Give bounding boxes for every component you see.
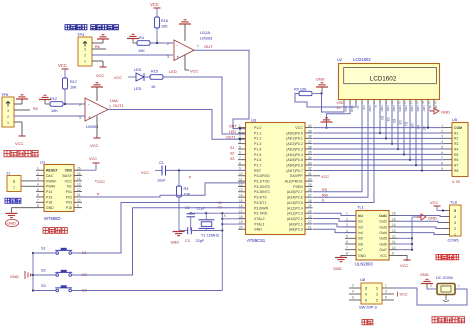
svg-text:3: 3 <box>385 290 387 294</box>
svg-text:VL: VL <box>337 106 341 110</box>
svg-text:14: 14 <box>77 177 81 181</box>
svg-text:D2: D2 <box>392 119 396 123</box>
svg-text:Out5: Out5 <box>379 237 387 241</box>
svg-text:P3.6/WR: P3.6/WR <box>254 206 269 210</box>
svg-text:3: 3 <box>441 135 443 139</box>
svg-text:NC: NC <box>67 185 73 189</box>
svg-text:2: 2 <box>454 227 456 231</box>
svg-text:22pF: 22pF <box>196 239 205 243</box>
svg-text:Y1 12MHZ: Y1 12MHZ <box>201 234 220 238</box>
wire TP6 pin4 to ground <box>14 99 22 104</box>
svg-text:38: 38 <box>308 135 312 139</box>
net label S1 at P1.4 <box>230 146 234 150</box>
connector TL8 label <box>450 200 458 205</box>
ground above power jack <box>420 272 433 289</box>
svg-text:C1: C1 <box>159 161 164 165</box>
svg-text:33: 33 <box>308 161 312 165</box>
svg-text:D5: D5 <box>410 124 414 128</box>
svg-text:R4: R4 <box>139 36 144 40</box>
svg-text:LED: LED <box>169 69 177 74</box>
net VCC at U8 pin3 <box>398 292 408 297</box>
wire TP4 pin1 to VCC <box>92 61 103 67</box>
svg-text:(AD7)P0.7: (AD7)P0.7 <box>286 169 303 173</box>
wire MCU P2.2 to TL1 In3 <box>313 224 356 227</box>
wire P0.5 row <box>313 159 444 161</box>
svg-text:GND: GND <box>7 221 16 226</box>
power symbol on LCD VDD drop <box>321 118 333 122</box>
svg-text:VCC: VCC <box>90 143 99 148</box>
net label LED at P1.1 <box>229 130 236 134</box>
wire S3 to ground bus <box>72 290 223 292</box>
svg-text:VCC: VCC <box>65 179 73 183</box>
svg-text:COM: COM <box>454 126 462 130</box>
LCD1602 module <box>339 64 440 100</box>
svg-text:R7: R7 <box>454 163 458 167</box>
ground rail for buttons <box>10 252 34 292</box>
speaker connector J1 label <box>6 171 11 176</box>
svg-text:10K: 10K <box>184 193 191 197</box>
net label OUT1 at P1.2 <box>226 135 241 140</box>
svg-text:GND: GND <box>46 206 54 210</box>
svg-text:D7: D7 <box>422 127 426 131</box>
svg-text:In4: In4 <box>358 231 363 235</box>
capacitor C2 22pF <box>185 206 206 231</box>
svg-text:2: 2 <box>441 129 443 133</box>
wire TP6 pin1 to VCC <box>14 122 22 136</box>
svg-text:2: 2 <box>365 287 367 291</box>
svg-text:VCC: VCC <box>58 63 67 68</box>
svg-text:Out7: Out7 <box>379 248 387 252</box>
svg-text:VCC: VCC <box>114 76 122 80</box>
wire Out2 to TL8 pin3 <box>397 221 443 222</box>
svg-text:5: 5 <box>376 299 378 303</box>
svg-text:Out6: Out6 <box>379 242 387 246</box>
svg-text:R6: R6 <box>33 107 38 111</box>
resistor network U5 4.7K <box>441 123 468 177</box>
wire TP4 pin2 to op-amp U12A pin3 <box>92 54 173 56</box>
svg-text:9: 9 <box>392 252 394 256</box>
svg-text:2: 2 <box>430 284 432 288</box>
svg-text:WT588D: WT588D <box>44 216 61 221</box>
power GND arrow right of TL1 <box>417 214 437 221</box>
net labels near LCD bundle <box>337 101 343 110</box>
VCC below U4A <box>90 116 101 148</box>
svg-text:P3.1/TXD: P3.1/TXD <box>254 180 270 184</box>
svg-text:P3.7/RD: P3.7/RD <box>254 212 268 216</box>
svg-text:U1: U1 <box>40 160 46 165</box>
net label LED <box>169 69 177 74</box>
svg-text:GND: GND <box>420 272 429 277</box>
LCD pin stubs and names <box>343 100 438 113</box>
svg-text:1: 1 <box>84 60 86 64</box>
svg-text:U12A: U12A <box>200 30 210 35</box>
svg-text:(A15)P2.7: (A15)P2.7 <box>287 190 303 194</box>
svg-text:GND: GND <box>171 240 180 245</box>
svg-text:4.7K: 4.7K <box>452 179 461 184</box>
DIP switch name <box>359 305 378 310</box>
svg-text:S3: S3 <box>41 284 46 288</box>
svg-text:8: 8 <box>239 161 241 165</box>
svg-text:5: 5 <box>385 296 387 300</box>
wire LCD BLA to VCC row <box>427 104 429 129</box>
svg-text:4: 4 <box>454 215 456 219</box>
svg-text:Out1: Out1 <box>379 214 387 218</box>
svg-text:E: E <box>374 106 378 108</box>
svg-text:15: 15 <box>392 217 396 221</box>
svg-text:DB0: DB0 <box>380 106 384 112</box>
svg-text:U3: U3 <box>251 118 257 123</box>
svg-text:15: 15 <box>77 172 81 176</box>
wire LCD VDD pin2 <box>325 104 350 129</box>
svg-text:RW: RW <box>322 193 329 197</box>
svg-text:1: 1 <box>37 166 39 170</box>
power VCC under TP6 <box>15 136 26 146</box>
svg-text:DB2: DB2 <box>392 106 396 112</box>
wire LCD RW to MCU P2.6 <box>313 104 368 197</box>
svg-text:12: 12 <box>409 100 412 104</box>
wire TP6 pin2 to op-amp U4A pin3 <box>14 115 85 117</box>
svg-text:25: 25 <box>308 204 312 208</box>
svg-text:DB4: DB4 <box>404 106 408 112</box>
wire LCD DB4 vertical <box>403 104 405 154</box>
wire LCD DB6 vertical <box>415 104 417 165</box>
wire P3.6 row to crystal rail <box>190 212 246 214</box>
svg-text:(A14)P2.6: (A14)P2.6 <box>287 196 303 200</box>
svg-text:1: 1 <box>197 44 199 48</box>
svg-text:11: 11 <box>77 193 81 197</box>
svg-text:35: 35 <box>308 151 312 155</box>
svg-text:3: 3 <box>167 55 169 59</box>
svg-text:(A12)P2.4: (A12)P2.4 <box>287 206 303 210</box>
svg-text:7: 7 <box>239 156 241 160</box>
svg-text:P1.4: P1.4 <box>254 147 261 151</box>
wire U8 pin1 to power jack <box>394 288 467 305</box>
svg-text:LM393: LM393 <box>200 36 213 41</box>
wire LCD VL pin3 <box>295 94 356 108</box>
op-amp U4A <box>79 98 118 129</box>
svg-text:10: 10 <box>239 172 243 176</box>
svg-text:OUT: OUT <box>229 125 237 129</box>
connector TP6 label <box>1 92 9 97</box>
svg-text:14: 14 <box>392 223 396 227</box>
svg-text:20: 20 <box>239 226 243 230</box>
svg-text:R12: R12 <box>50 97 57 101</box>
svg-text:8: 8 <box>441 161 443 165</box>
net label D3 <box>398 121 402 125</box>
svg-text:3: 3 <box>239 135 241 139</box>
net label RW <box>322 193 329 197</box>
wire LCD BLK to GND <box>430 104 434 111</box>
net label P01 <box>97 176 192 197</box>
svg-text:32: 32 <box>308 167 312 171</box>
speaker connector J1 <box>7 176 21 192</box>
svg-text:P15: P15 <box>66 206 72 210</box>
svg-text:AT89C51: AT89C51 <box>247 238 266 243</box>
wire TP6 pin3 stub <box>14 109 30 111</box>
svg-text:(AD4)P0.4: (AD4)P0.4 <box>286 153 303 157</box>
wire TP4 pin4 to ground <box>92 39 103 43</box>
wire WT588D GND pin to ground <box>11 208 36 213</box>
svg-text:GND: GND <box>333 266 342 271</box>
svg-text:VCC: VCC <box>141 170 149 175</box>
svg-text:15: 15 <box>427 100 430 104</box>
svg-text:S1: S1 <box>41 247 46 251</box>
ground rail under R3 <box>178 197 180 231</box>
U5 value label <box>452 179 461 184</box>
svg-text:P03: P03 <box>66 201 72 205</box>
ground left of R12 <box>39 95 51 104</box>
svg-text:4: 4 <box>365 293 367 297</box>
svg-text:D6: D6 <box>416 125 420 129</box>
VCC below U12A <box>185 55 199 74</box>
svg-text:PWM-: PWM- <box>46 185 57 189</box>
wire XTAL2 pin18 <box>221 218 245 220</box>
svg-text:2: 2 <box>239 129 241 133</box>
svg-text:OUT: OUT <box>204 44 213 49</box>
svg-text:P3.3/INT1: P3.3/INT1 <box>254 190 270 194</box>
ground above LCD bundle <box>313 78 328 95</box>
svg-text:D4: D4 <box>404 122 408 126</box>
power VCC under TP4 <box>96 67 107 78</box>
wire P0.6 row <box>313 164 444 166</box>
svg-text:6: 6 <box>239 151 241 155</box>
svg-text:5: 5 <box>37 188 39 192</box>
net label D0 <box>380 116 384 120</box>
svg-text:VCC: VCC <box>295 126 303 130</box>
svg-text:R1: R1 <box>454 131 458 135</box>
svg-text:12: 12 <box>392 235 396 239</box>
svg-text:U2: U2 <box>337 57 343 62</box>
svg-text:6: 6 <box>37 193 39 197</box>
wire MCU P2.4 to TL1 In1 <box>313 213 356 215</box>
svg-text:Out2: Out2 <box>379 220 387 224</box>
wire LCD DB0 vertical <box>379 104 381 133</box>
wire LCD E to MCU P2.5 <box>313 104 374 203</box>
svg-text:2: 2 <box>13 179 15 183</box>
svg-text:In1: In1 <box>358 214 363 218</box>
svg-text:2: 2 <box>167 42 169 46</box>
svg-text:TP6: TP6 <box>1 92 9 97</box>
power VCC above R17 <box>58 63 69 78</box>
wire TP4 pin3 stub <box>92 48 106 50</box>
wire LCD DB1 vertical <box>385 104 387 138</box>
svg-text:DAC: DAC <box>46 174 54 178</box>
svg-text:28: 28 <box>308 188 312 192</box>
svg-text:11: 11 <box>239 177 243 181</box>
svg-text:LED: LED <box>134 68 142 72</box>
driver TL1 ULN2003 <box>345 211 397 261</box>
LED D1 <box>134 68 150 91</box>
wire U4A output to MCU P1.2 <box>108 110 245 140</box>
svg-text:RESET: RESET <box>46 169 59 173</box>
net label OUT1 <box>113 103 124 108</box>
svg-text:TL1: TL1 <box>357 205 365 210</box>
svg-text:P13: P13 <box>46 195 52 199</box>
svg-text:DB6: DB6 <box>416 106 420 112</box>
resistor R12 10K <box>50 97 63 113</box>
wire WT588D VDD to VCC <box>82 163 96 170</box>
svg-text:3: 3 <box>84 48 86 52</box>
svg-text:13: 13 <box>415 100 418 104</box>
svg-text:(AD5)P0.5: (AD5)P0.5 <box>286 158 303 162</box>
svg-text:P14: P14 <box>46 190 52 194</box>
svg-text:ULN2003: ULN2003 <box>355 262 373 267</box>
svg-text:PWM+: PWM+ <box>46 179 57 183</box>
svg-text:1K: 1K <box>151 85 156 89</box>
svg-text:Out3: Out3 <box>379 225 387 229</box>
net label OUT at P1.0 <box>229 125 241 130</box>
svg-text:ALE/PROG: ALE/PROG <box>285 180 303 184</box>
label power input <box>432 317 465 323</box>
svg-text:7: 7 <box>346 246 348 250</box>
svg-text:1: 1 <box>239 124 241 128</box>
power bar above U12A <box>179 20 191 41</box>
svg-text:4: 4 <box>352 290 354 294</box>
svg-text:GND: GND <box>441 110 450 115</box>
power jack label <box>436 276 453 280</box>
svg-text:In3: In3 <box>358 225 363 229</box>
svg-text:DB3: DB3 <box>398 106 402 112</box>
wire MCU P2.3 to TL1 In2 <box>313 219 356 222</box>
wire C1 to RST pin9 <box>166 169 246 171</box>
svg-text:U5: U5 <box>452 117 458 122</box>
svg-text:P1.2: P1.2 <box>254 137 261 141</box>
resistor R15 1K <box>150 70 163 90</box>
svg-text:2: 2 <box>7 115 9 119</box>
label speaker <box>5 198 21 203</box>
power GND arrow right of LCD <box>430 108 450 115</box>
svg-text:P1.1: P1.1 <box>254 131 261 135</box>
svg-text:1: 1 <box>385 284 387 288</box>
svg-text:Out4: Out4 <box>379 231 387 235</box>
MCU U3 label <box>251 118 257 123</box>
svg-text:9: 9 <box>441 167 443 171</box>
svg-text:3: 3 <box>454 221 456 225</box>
net label D4 <box>404 122 408 126</box>
net label E <box>322 199 325 203</box>
wire S1 to MCU P3.4 <box>72 203 246 254</box>
svg-text:10: 10 <box>392 246 396 250</box>
voice chip U1 label <box>40 160 46 165</box>
net VCC at MCU EA pin <box>313 174 329 179</box>
svg-text:P01: P01 <box>66 190 72 194</box>
svg-text:10uF: 10uF <box>157 179 166 183</box>
svg-text:D1: D1 <box>386 118 390 122</box>
svg-text:3: 3 <box>79 116 81 120</box>
svg-text:GND: GND <box>358 254 366 258</box>
wire crystal vertical rail to S3 bus <box>221 213 223 290</box>
svg-text:1: 1 <box>458 284 460 288</box>
wire P0.2 row <box>313 143 444 145</box>
svg-text:TP4: TP4 <box>77 32 85 37</box>
svg-text:(AD2)P0.2: (AD2)P0.2 <box>286 142 303 146</box>
svg-text:(AD0)P0.0: (AD0)P0.0 <box>286 131 303 135</box>
svg-text:+: + <box>88 115 91 120</box>
svg-text:14: 14 <box>239 193 243 197</box>
svg-text:29: 29 <box>308 183 312 187</box>
net VCC arrow for LED <box>114 76 136 80</box>
svg-text:D0: D0 <box>380 116 384 120</box>
svg-text:XTAL2: XTAL2 <box>254 217 265 221</box>
svg-text:LCD1602: LCD1602 <box>370 76 397 83</box>
net label D2 <box>392 119 396 123</box>
wire J1 pin2 to PWM+ <box>21 180 36 182</box>
svg-text:16: 16 <box>77 166 81 170</box>
wire LCD DB7 vertical <box>421 104 423 170</box>
connector TL8 name <box>448 238 460 243</box>
wire R15 to MCU P1.1 <box>163 77 245 134</box>
wire LCD DB3 vertical <box>397 104 399 149</box>
svg-text:6: 6 <box>441 151 443 155</box>
wire Out3 to TL8 pin2 <box>397 227 443 229</box>
wire S2 to MCU P3.5 <box>72 208 246 275</box>
wire Out4 to TL8 pin1 <box>397 233 443 235</box>
svg-text:5: 5 <box>441 145 443 149</box>
net label D6 <box>416 125 420 129</box>
svg-text:R8: R8 <box>454 169 458 173</box>
svg-text:BUSY: BUSY <box>62 174 72 178</box>
svg-text:VCC: VCC <box>321 174 329 179</box>
power VCC above WT588D <box>89 156 100 163</box>
wire LCD DB5 vertical <box>409 104 411 160</box>
svg-text:P3.0/RXD: P3.0/RXD <box>254 174 270 178</box>
svg-text:LCD1602: LCD1602 <box>353 57 371 62</box>
svg-text:S3: S3 <box>230 157 234 161</box>
op-amp U12A <box>167 30 213 61</box>
svg-text:(A11)P2.3: (A11)P2.3 <box>287 212 303 216</box>
ground for TP4 pin4 <box>97 35 109 39</box>
connector TL8 CON5 <box>443 205 461 237</box>
svg-text:4: 4 <box>441 140 443 144</box>
connector TP4 <box>78 37 92 66</box>
svg-text:(AD3)P0.3: (AD3)P0.3 <box>286 147 303 151</box>
svg-text:R17: R17 <box>70 80 77 84</box>
svg-text:22pF: 22pF <box>197 207 206 211</box>
svg-text:VCC: VCC <box>430 200 438 205</box>
svg-text:R16: R16 <box>161 19 168 23</box>
svg-text:In7: In7 <box>358 248 363 252</box>
label switch <box>362 319 373 324</box>
VCC under TL1 right <box>397 255 411 268</box>
svg-text:26: 26 <box>308 199 312 203</box>
LCD U2 label <box>337 57 371 62</box>
wire P0.3 row <box>313 148 444 150</box>
svg-text:OUT1: OUT1 <box>113 103 124 108</box>
ground left of R4 <box>127 34 139 43</box>
svg-text:8: 8 <box>346 252 348 256</box>
crystal Y1 12MHz <box>199 213 220 237</box>
svg-text:DC JC0W: DC JC0W <box>436 276 453 280</box>
DIP switch U8 SW DIP-3 <box>349 283 394 304</box>
title text: water level sensor <box>65 25 118 30</box>
net label S3 at P1.6 <box>230 157 234 161</box>
svg-text:In5: In5 <box>358 237 363 241</box>
svg-text:CON5: CON5 <box>448 238 460 243</box>
MCU name label <box>247 238 266 243</box>
button S2 <box>33 269 87 278</box>
button S3 <box>33 284 87 293</box>
resistor R9 10K <box>294 88 312 96</box>
svg-text:1: 1 <box>109 105 111 109</box>
resistor R16 10K <box>155 17 169 43</box>
wire XTAL1 pin19 <box>221 223 245 225</box>
svg-text:P1.0: P1.0 <box>254 126 261 130</box>
svg-text:S2: S2 <box>41 269 46 273</box>
svg-text:9: 9 <box>77 204 79 208</box>
svg-text:4: 4 <box>239 140 241 144</box>
wire LCD VSS pin1 <box>322 94 345 113</box>
svg-text:R4: R4 <box>454 147 458 151</box>
